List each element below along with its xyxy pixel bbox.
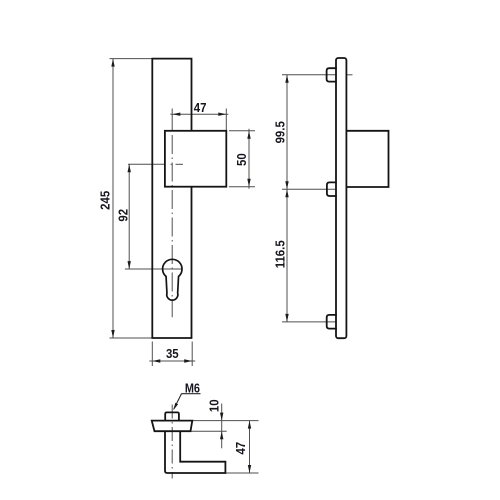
dimension 50 extension line bottom <box>229 186 255 188</box>
screw head M6 bottom view <box>165 412 179 420</box>
fixing boss bottom side view <box>327 315 337 329</box>
node cylinder axis extension line <box>125 268 182 270</box>
dimension 47 extension line right <box>225 109 227 132</box>
handle boss block side view <box>346 131 388 187</box>
dimension 99.5 extension line top boss <box>282 74 339 76</box>
dimension 92 line <box>128 164 130 269</box>
dimension 99.5 line <box>286 75 288 189</box>
svg-text:47: 47 <box>234 442 249 455</box>
dimension 50 line <box>248 129 250 189</box>
dimension 245 line <box>112 59 114 338</box>
dimension 116.5 extension line bottom boss <box>282 321 338 323</box>
euro profile cylinder keyhole <box>163 259 182 300</box>
handle square boss front view <box>165 131 226 187</box>
svg-text:116.5: 116.5 <box>273 240 288 268</box>
svg-text:92: 92 <box>116 209 131 222</box>
plate outline side view <box>336 58 346 338</box>
dimension 10 extension line upper / 47 extension top <box>192 420 258 422</box>
dimension 35 extension lines <box>151 342 153 367</box>
dimension 245 extension line top <box>110 58 153 60</box>
svg-text:10: 10 <box>207 399 222 412</box>
plate outline front view <box>152 59 191 338</box>
dimension 116.5 line <box>286 189 288 322</box>
svg-text:47: 47 <box>194 100 207 115</box>
fixing boss top side view <box>327 68 337 81</box>
svg-text:35: 35 <box>166 346 179 361</box>
dimension 47 line <box>170 113 228 115</box>
svg-text:50: 50 <box>235 153 250 166</box>
dimension 50 extension line top <box>229 130 255 132</box>
dimension 10 extension line lower <box>191 430 227 432</box>
dimension 47 extension line bottom <box>225 472 258 474</box>
dimension extension line middle boss <box>282 188 338 190</box>
node handle axis center mark <box>128 163 165 165</box>
centerline handle axis bottom view <box>171 405 173 479</box>
dimension 35 line <box>149 360 195 362</box>
dimension 47 bottom line <box>249 421 251 473</box>
flange plate section bottom view <box>152 421 193 432</box>
handle lever L-section bottom view <box>165 431 225 473</box>
dimension 245 extension line bottom <box>110 337 153 339</box>
centerline vertical plate axis front view <box>171 109 173 132</box>
label M6 leader line <box>181 393 200 395</box>
svg-text:245: 245 <box>98 191 113 210</box>
svg-text:M6: M6 <box>185 381 200 396</box>
dimension 10 line <box>221 404 223 449</box>
svg-text:99.5: 99.5 <box>273 121 288 143</box>
fixing boss middle side view <box>327 182 337 196</box>
